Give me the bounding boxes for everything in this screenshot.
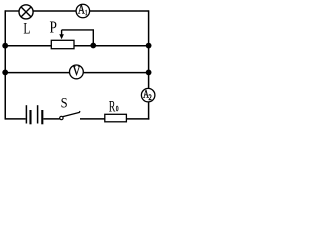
svg-text:P: P [50,18,57,37]
label P [50,18,57,37]
label R0 [109,98,116,115]
voltmeter V [70,65,84,79]
rheostat P box [51,40,74,48]
wire right vertical upper [148,10,150,88]
battery cell 2 short plate [41,110,43,124]
svg-text:0: 0 [116,104,119,113]
wire left vertical [4,10,6,119]
lamp L [19,5,33,19]
wire right vertical lower [148,102,150,119]
node junction dot row2 right [146,43,152,49]
label S [61,95,68,112]
battery cell 2 long plate [37,105,39,123]
A1 letter [78,2,85,17]
wire row2 left [5,45,51,47]
svg-text:S: S [61,95,68,112]
wiper arrowhead [59,34,64,39]
wire row3 left [5,72,69,74]
label R0 subscript [116,104,119,113]
A2 subscript 2 [149,93,152,102]
wire switch to battery [43,118,59,120]
wire lamp to A1 [33,10,76,12]
battery cell 1 short plate [29,110,31,124]
wire top-left segment [5,10,19,12]
resistor R0 box [105,114,127,122]
ammeter A2 [141,88,155,102]
wire row2 right [74,45,149,47]
wire A1 to top-right corner [90,10,149,12]
node junction dot wiper [90,43,96,49]
V letter [73,64,82,80]
svg-text:1: 1 [85,8,88,17]
svg-text:2: 2 [149,93,152,102]
wire bottom right segment [126,118,149,120]
switch S pivot [60,116,63,119]
node junction dot row3 right [146,70,152,76]
label L [23,21,30,38]
svg-text:V: V [73,64,82,80]
svg-text:R: R [109,98,116,115]
svg-text:L: L [23,21,30,38]
wiper of P [62,30,94,45]
A1 subscript 1 [85,8,88,17]
node junction dot row2 left [2,43,8,49]
switch S lever [63,111,80,116]
wire row3 right [84,72,149,74]
ammeter A1 [76,4,90,18]
wire battery to bottom-left corner [5,118,25,120]
battery cell 1 long plate [25,105,27,123]
wire R0 to switch [80,118,105,120]
A2 letter [143,89,149,101]
node junction dot row3 left [2,70,8,76]
